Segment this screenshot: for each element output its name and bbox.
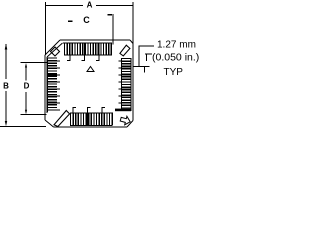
svg-text:D: D (24, 82, 30, 91)
svg-text:C: C (83, 15, 90, 25)
svg-text:1.27 mm: 1.27 mm (157, 40, 196, 51)
svg-text:(0.050 in.): (0.050 in.) (152, 52, 199, 64)
svg-text:B: B (3, 82, 9, 91)
svg-text:TYP: TYP (164, 67, 184, 78)
svg-text:A: A (87, 1, 93, 10)
